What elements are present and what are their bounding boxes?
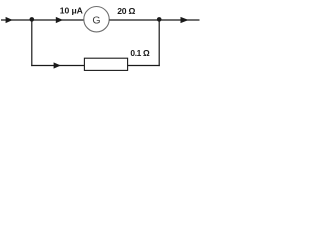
galvanometer U1 (G): [84, 7, 109, 32]
node B (right junction): [157, 17, 162, 22]
wire: top-right segment from galvanometer to right edge: [109, 19, 199, 21]
svg-text:20 Ω: 20 Ω: [117, 6, 135, 16]
current arrow through shunt: [54, 62, 61, 68]
node A (left junction): [30, 17, 35, 22]
wire: left vertical branch: [31, 20, 33, 66]
current arrow toward galvanometer: [56, 17, 63, 23]
current arrow into circuit (top-left): [6, 17, 13, 23]
svg-text:10 μA: 10 μA: [60, 5, 83, 15]
svg-text:G: G: [92, 15, 100, 27]
svg-text:0.1 Ω: 0.1 Ω: [130, 48, 150, 58]
wire: top-left segment from left edge to galvanometer: [1, 19, 84, 21]
resistor R1 (shunt 0.1 Ohm): [84, 58, 127, 70]
wire: right vertical branch: [158, 20, 160, 66]
current arrow out of circuit (top-right): [181, 17, 189, 23]
wire: bottom-right segment from shunt resistor: [128, 65, 160, 67]
wire: bottom-left segment to shunt resistor: [31, 65, 84, 67]
